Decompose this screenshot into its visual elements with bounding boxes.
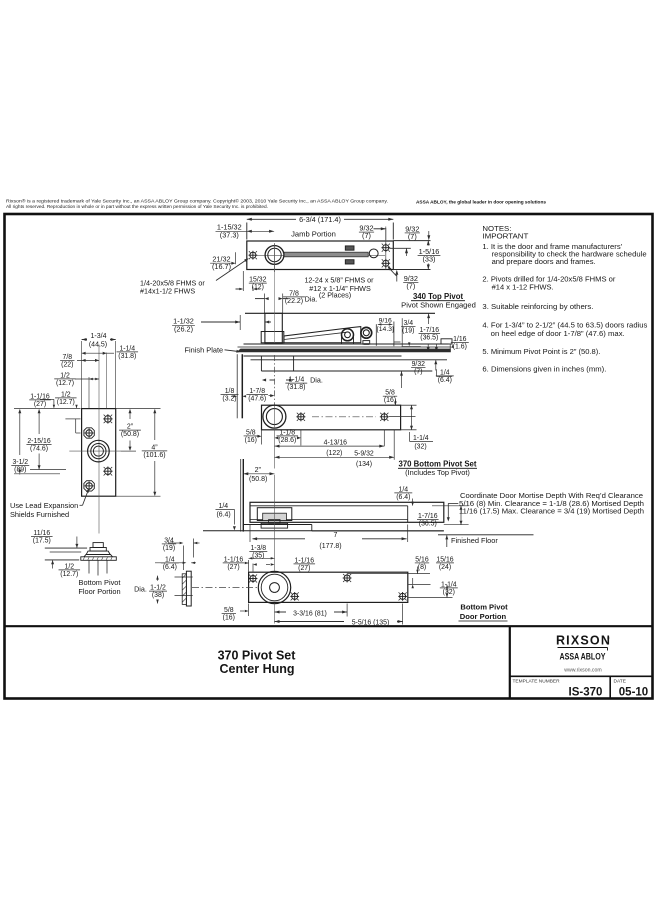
svg-text:1-1/16: 1-1/16: [224, 556, 244, 563]
dim 6-3/4 (171.4) line: [247, 218, 296, 220]
title block separator: [5, 625, 653, 627]
shaft clamp upper: [345, 246, 354, 250]
svg-text:and prepare doors and frames.: and prepare doors and frames.: [492, 259, 596, 266]
svg-text:(177.8): (177.8): [319, 543, 341, 550]
pivot arm wedge: [284, 327, 361, 343]
svg-text:Rixson® is a registered tradem: Rixson® is a registered trademark of Yal…: [6, 198, 388, 203]
svg-text:Dia.: Dia.: [134, 585, 147, 594]
svg-text:Pivot Shown Engaged: Pivot Shown Engaged: [401, 301, 476, 310]
svg-text:(1.6): (1.6): [453, 343, 467, 350]
svg-text:(2 Places): (2 Places): [319, 291, 351, 300]
svg-text:(27): (27): [227, 564, 239, 571]
svg-text:TEMPLATE NUMBER: TEMPLATE NUMBER: [513, 679, 561, 685]
door plate mortise hatch: [182, 574, 186, 605]
svg-text:5/8: 5/8: [385, 390, 395, 397]
plate screw hole 2: [105, 468, 112, 475]
main border frame: [5, 214, 653, 699]
keeper extension lines: [375, 324, 377, 346]
svg-text:1-7/16: 1-7/16: [418, 513, 438, 520]
svg-text:(12): (12): [252, 284, 264, 291]
svg-text:1/2: 1/2: [65, 563, 75, 570]
svg-text:1-1/2: 1-1/2: [150, 585, 166, 592]
svg-text:(8): (8): [418, 564, 426, 571]
door rail mortise wall: [407, 506, 409, 523]
svg-text:(50.8): (50.8): [121, 431, 139, 438]
rail pivot foot: [261, 523, 288, 528]
svg-text:1-3/4: 1-3/4: [91, 333, 107, 340]
svg-text:2. Pivots drilled for 1/4-20x5: 2. Pivots drilled for 1/4-20x5/8 FHMS or: [482, 277, 616, 284]
svg-text:6-3/4 (171.4): 6-3/4 (171.4): [299, 215, 341, 224]
svg-text:(36.5): (36.5): [420, 334, 438, 341]
svg-text:DATE: DATE: [614, 679, 626, 685]
door plate side view: [186, 571, 191, 606]
svg-text:Dia.: Dia.: [310, 375, 323, 384]
jamb portion plate outline: [247, 241, 393, 270]
svg-text:5/16: 5/16: [415, 556, 429, 563]
set dashed centerline: [312, 416, 376, 418]
svg-text:5/8: 5/8: [224, 607, 234, 614]
svg-text:#14x1-1/2 FHWS: #14x1-1/2 FHWS: [140, 286, 195, 295]
set screw left: [298, 414, 304, 420]
door top rail surface: [244, 355, 402, 357]
svg-text:11/16: 11/16: [33, 530, 50, 537]
svg-text:(6.4): (6.4): [163, 564, 177, 571]
svg-text:7/8: 7/8: [63, 354, 73, 361]
svg-text:1/4: 1/4: [399, 486, 409, 493]
svg-text:4-13/16: 4-13/16: [324, 439, 348, 446]
svg-text:1-7/8: 1-7/8: [249, 388, 265, 395]
svg-text:Finish Plate: Finish Plate: [185, 345, 224, 354]
svg-text:6. Dimensions given in inches: 6. Dimensions given in inches (mm).: [482, 366, 606, 373]
svg-text:Use Lead Expansion: Use Lead Expansion: [10, 501, 78, 510]
svg-text:1. It is the door and frame ma: 1. It is the door and frame manufacturer…: [482, 244, 622, 251]
bottom pivot set body: [262, 405, 401, 430]
jamb right screw lower: [383, 260, 389, 266]
set screw right: [381, 414, 387, 420]
svg-text:(7): (7): [414, 369, 422, 376]
svg-text:www.rixson.com: www.rixson.com: [564, 668, 601, 674]
svg-text:(7): (7): [408, 232, 417, 241]
svg-text:(44.5): (44.5): [89, 342, 107, 349]
jamb plan centerline horizontal: [256, 254, 385, 256]
svg-text:5-5/16 (135): 5-5/16 (135): [352, 620, 390, 627]
coordinate note bracket: [448, 502, 458, 504]
svg-text:[14.3]: [14.3]: [377, 326, 394, 333]
spindle centerline: [274, 243, 276, 343]
svg-text:1-1/4: 1-1/4: [413, 435, 429, 442]
svg-text:(16): (16): [223, 614, 235, 621]
svg-text:(12.7): (12.7): [60, 571, 78, 578]
svg-text:(17.5): (17.5): [33, 537, 51, 544]
svg-text:2”: 2”: [127, 424, 134, 431]
door portion screw tc: [344, 575, 350, 581]
door edge lines mid: [240, 459, 242, 532]
door portion screw bl: [292, 593, 298, 599]
svg-text:responsibility to check the ha: responsibility to check the hardware sch…: [492, 251, 647, 258]
svg-text:Door Portion: Door Portion: [460, 612, 507, 621]
finish plate dark bar: [237, 349, 451, 353]
svg-text:IS-370: IS-370: [569, 687, 603, 699]
svg-text:(Includes Top Pivot): (Includes Top Pivot): [405, 468, 470, 477]
spindle hole wall right: [293, 356, 295, 371]
svg-text:(6.4): (6.4): [438, 377, 452, 384]
svg-text:Dia.: Dia.: [305, 294, 318, 303]
door rail mortise bottom: [261, 370, 432, 372]
svg-text:7/8: 7/8: [289, 290, 299, 297]
svg-text:(12.7): (12.7): [57, 399, 75, 406]
plate shield hole 1: [84, 428, 94, 438]
svg-text:(31.8): (31.8): [118, 353, 136, 360]
hook roller: [361, 327, 372, 338]
svg-text:#14 x 1-12 FHWS.: #14 x 1-12 FHWS.: [492, 285, 554, 292]
svg-text:3. Suitable reinforcing by oth: 3. Suitable reinforcing by others.: [482, 304, 593, 311]
jamb bottom edge extension right: [393, 269, 430, 271]
jamb slide shaft: [284, 252, 368, 257]
dim 5/8 (16) rail arrow: [400, 371, 403, 375]
svg-text:(16): (16): [245, 437, 257, 444]
svg-text:(19): (19): [402, 327, 414, 334]
jamb right screw upper: [383, 245, 389, 251]
hook stem: [363, 341, 370, 345]
svg-text:3-1/2: 3-1/2: [12, 459, 28, 466]
door portion bearing: [258, 571, 290, 603]
svg-text:(37.3): (37.3): [220, 230, 239, 239]
set pivot centerline lower: [274, 406, 276, 469]
svg-text:(32): (32): [443, 589, 455, 596]
svg-text:1/4: 1/4: [440, 369, 450, 376]
svg-text:(6.4): (6.4): [396, 494, 410, 501]
floor spindle anchors: [88, 560, 90, 573]
svg-text:Jamb Portion: Jamb Portion: [291, 229, 336, 238]
svg-text:(38): (38): [152, 592, 164, 599]
door portion screw br: [400, 593, 406, 599]
jamb soffit line: [245, 312, 435, 314]
svg-text:Center Hung: Center Hung: [220, 662, 295, 676]
floor plate centerline vertical: [98, 345, 100, 534]
jamb screw line extension right: [390, 247, 411, 249]
svg-text:(134): (134): [356, 461, 372, 468]
svg-text:ASSA ABLOY, the global leader: ASSA ABLOY, the global leader in door op…: [416, 200, 546, 206]
floor lines left: [45, 547, 87, 549]
svg-text:Bottom Pivot: Bottom Pivot: [79, 578, 121, 587]
svg-text:(19): (19): [163, 545, 175, 552]
svg-text:(12.7): (12.7): [56, 380, 74, 387]
svg-text:11/16 (17.5) Max. Clearance =: 11/16 (17.5) Max. Clearance = 3/4 (19) M…: [459, 508, 644, 516]
floor spindle cone: [90, 548, 106, 552]
svg-text:Finished Floor: Finished Floor: [451, 536, 498, 545]
svg-text:2”: 2”: [255, 467, 262, 474]
spindle base flare: [261, 332, 284, 343]
jamb left mounting screw: [250, 252, 256, 258]
jamb right screws column line: [385, 227, 387, 270]
RIXSON logo rule: [558, 647, 608, 649]
rail pivot block: [257, 508, 292, 521]
svg-text:9/16: 9/16: [379, 318, 392, 325]
svg-text:7: 7: [334, 532, 338, 539]
jamb pivot bearing circle: [265, 246, 284, 265]
svg-text:Floor Portion: Floor Portion: [78, 587, 120, 596]
svg-text:(27): (27): [298, 565, 310, 572]
arm roller small: [342, 329, 354, 341]
svg-text:5/8: 5/8: [246, 429, 256, 436]
svg-text:5/16 (8) Min. Clearance = 1-1/: 5/16 (8) Min. Clearance = 1-1/8 (28.6) M…: [459, 500, 644, 508]
template row separator: [510, 675, 653, 677]
door rail inner bottom: [250, 519, 408, 521]
template/date divider: [609, 676, 611, 698]
finish plate top line: [244, 343, 449, 345]
svg-text:1-1/8: 1-1/8: [279, 429, 295, 436]
door portion screw tl: [250, 576, 256, 582]
svg-text:3/4: 3/4: [404, 320, 414, 327]
spindle body: [265, 313, 282, 343]
plate hole row ticks: [65, 418, 80, 420]
svg-text:5. Minimum Pivot Point is 2” (: 5. Minimum Pivot Point is 2” (50.8).: [482, 349, 600, 356]
svg-text:340 Top Pivot: 340 Top Pivot: [413, 292, 464, 301]
pivot centerline dashed upper: [274, 355, 276, 406]
shaft end roller: [369, 249, 378, 258]
svg-text:(22): (22): [61, 361, 73, 368]
svg-text:RIXSON: RIXSON: [556, 634, 611, 648]
svg-text:15/32: 15/32: [249, 277, 266, 284]
jamb top edge extension right: [393, 240, 430, 242]
svg-text:9/32: 9/32: [412, 361, 426, 368]
svg-text:1/4: 1/4: [165, 556, 175, 563]
svg-text:1/8: 1/8: [225, 388, 235, 395]
svg-text:1-1/4: 1-1/4: [441, 581, 457, 588]
floor plate hole column line: [106, 353, 108, 409]
leader to right screws: [389, 268, 397, 276]
svg-text:4. For 1-3/4” to 2-1/2” (44.5: 4. For 1-3/4” to 2-1/2” (44.5 to 63.5) d…: [482, 323, 648, 330]
spindle hole wall left: [260, 356, 262, 371]
plate right step: [441, 339, 452, 344]
svg-text:Coordinate Door Mortise Depth: Coordinate Door Mortise Depth With Req’d…: [460, 492, 643, 500]
svg-text:Bottom Pivot: Bottom Pivot: [460, 603, 508, 612]
svg-text:(16): (16): [384, 397, 396, 404]
floor spindle base: [81, 557, 117, 561]
svg-text:(50.8): (50.8): [249, 476, 267, 483]
svg-text:(32): (32): [414, 444, 426, 451]
plate screw hole 1: [105, 416, 112, 423]
svg-text:1/2: 1/2: [61, 391, 71, 398]
svg-text:(24): (24): [439, 564, 451, 571]
svg-text:1/2: 1/2: [60, 372, 70, 379]
floor spindle top: [93, 543, 103, 548]
svg-text:370 Pivot Set: 370 Pivot Set: [218, 649, 297, 663]
svg-text:(74.6): (74.6): [30, 446, 48, 453]
svg-text:IMPORTANT: IMPORTANT: [482, 234, 529, 241]
svg-text:(28.6): (28.6): [278, 437, 296, 444]
floor plate body: [82, 409, 116, 497]
svg-text:12-24 x 5/8” FHMS or: 12-24 x 5/8” FHMS or: [304, 276, 374, 285]
svg-text:(27): (27): [34, 401, 46, 408]
svg-text:(122): (122): [326, 450, 342, 457]
svg-text:1-7/16: 1-7/16: [420, 327, 440, 334]
finish plate mid line: [238, 346, 452, 348]
svg-text:1-3/8: 1-3/8: [250, 545, 266, 552]
svg-text:(33): (33): [423, 254, 436, 263]
door rail outer: [250, 502, 444, 522]
svg-text:®: ®: [607, 637, 610, 641]
rail pivot stem: [269, 520, 280, 524]
svg-text:(101.6): (101.6): [143, 452, 165, 459]
svg-text:(31.8): (31.8): [287, 384, 305, 391]
door leaf edge below plate: [236, 354, 238, 418]
dim 5/8 top right arrow: [394, 401, 396, 405]
svg-text:1/4: 1/4: [219, 503, 229, 510]
door rail mortise top: [250, 505, 408, 507]
svg-text:on heel edge of door 1-7/8” (4: on heel edge of door 1-7/8” (47.6) max.: [491, 331, 625, 338]
shaft clamp lower: [345, 260, 354, 264]
jamb plan pivot vertical centerline: [274, 244, 276, 273]
svg-text:(36.5): (36.5): [419, 521, 437, 528]
door portion centerline: [192, 587, 258, 589]
svg-text:1-1/16: 1-1/16: [295, 557, 315, 564]
plate shield hole 2: [84, 481, 94, 491]
plate top extension left: [14, 408, 81, 410]
svg-text:5-9/32: 5-9/32: [354, 451, 374, 458]
svg-text:(7): (7): [362, 231, 371, 240]
svg-text:05-10: 05-10: [619, 687, 648, 699]
svg-text:1-1/4: 1-1/4: [119, 345, 135, 352]
finished floor line: [203, 530, 444, 532]
title block vertical divider: [509, 626, 511, 698]
door plate screw ticks: [175, 576, 193, 578]
bottom pivot set bearing: [263, 405, 286, 428]
door portion body: [249, 572, 408, 602]
svg-text:All rights reserved. Reproduct: All rights reserved. Reproduction in who…: [6, 204, 268, 209]
svg-text:Shields Furnished: Shields Furnished: [10, 510, 69, 519]
svg-text:15/16: 15/16: [436, 556, 453, 563]
rail bottom profile: [243, 524, 312, 526]
svg-text:4”: 4”: [151, 444, 158, 451]
svg-text:(47.6): (47.6): [248, 395, 266, 402]
door rail undercut line: [251, 359, 448, 361]
plate center bearing: [88, 440, 110, 462]
floor plate hole cross line: [69, 450, 121, 452]
svg-text:(6.4): (6.4): [217, 512, 231, 519]
svg-text:3-3/16 (81): 3-3/16 (81): [293, 610, 327, 617]
svg-text:2-15/16: 2-15/16: [27, 438, 51, 445]
svg-text:1/16: 1/16: [453, 336, 467, 343]
svg-text:NOTES:: NOTES:: [482, 226, 511, 233]
leader to left screw: [216, 260, 247, 281]
svg-text:ASSA ABLOY: ASSA ABLOY: [560, 652, 606, 662]
arm roller saddle: [342, 336, 354, 344]
